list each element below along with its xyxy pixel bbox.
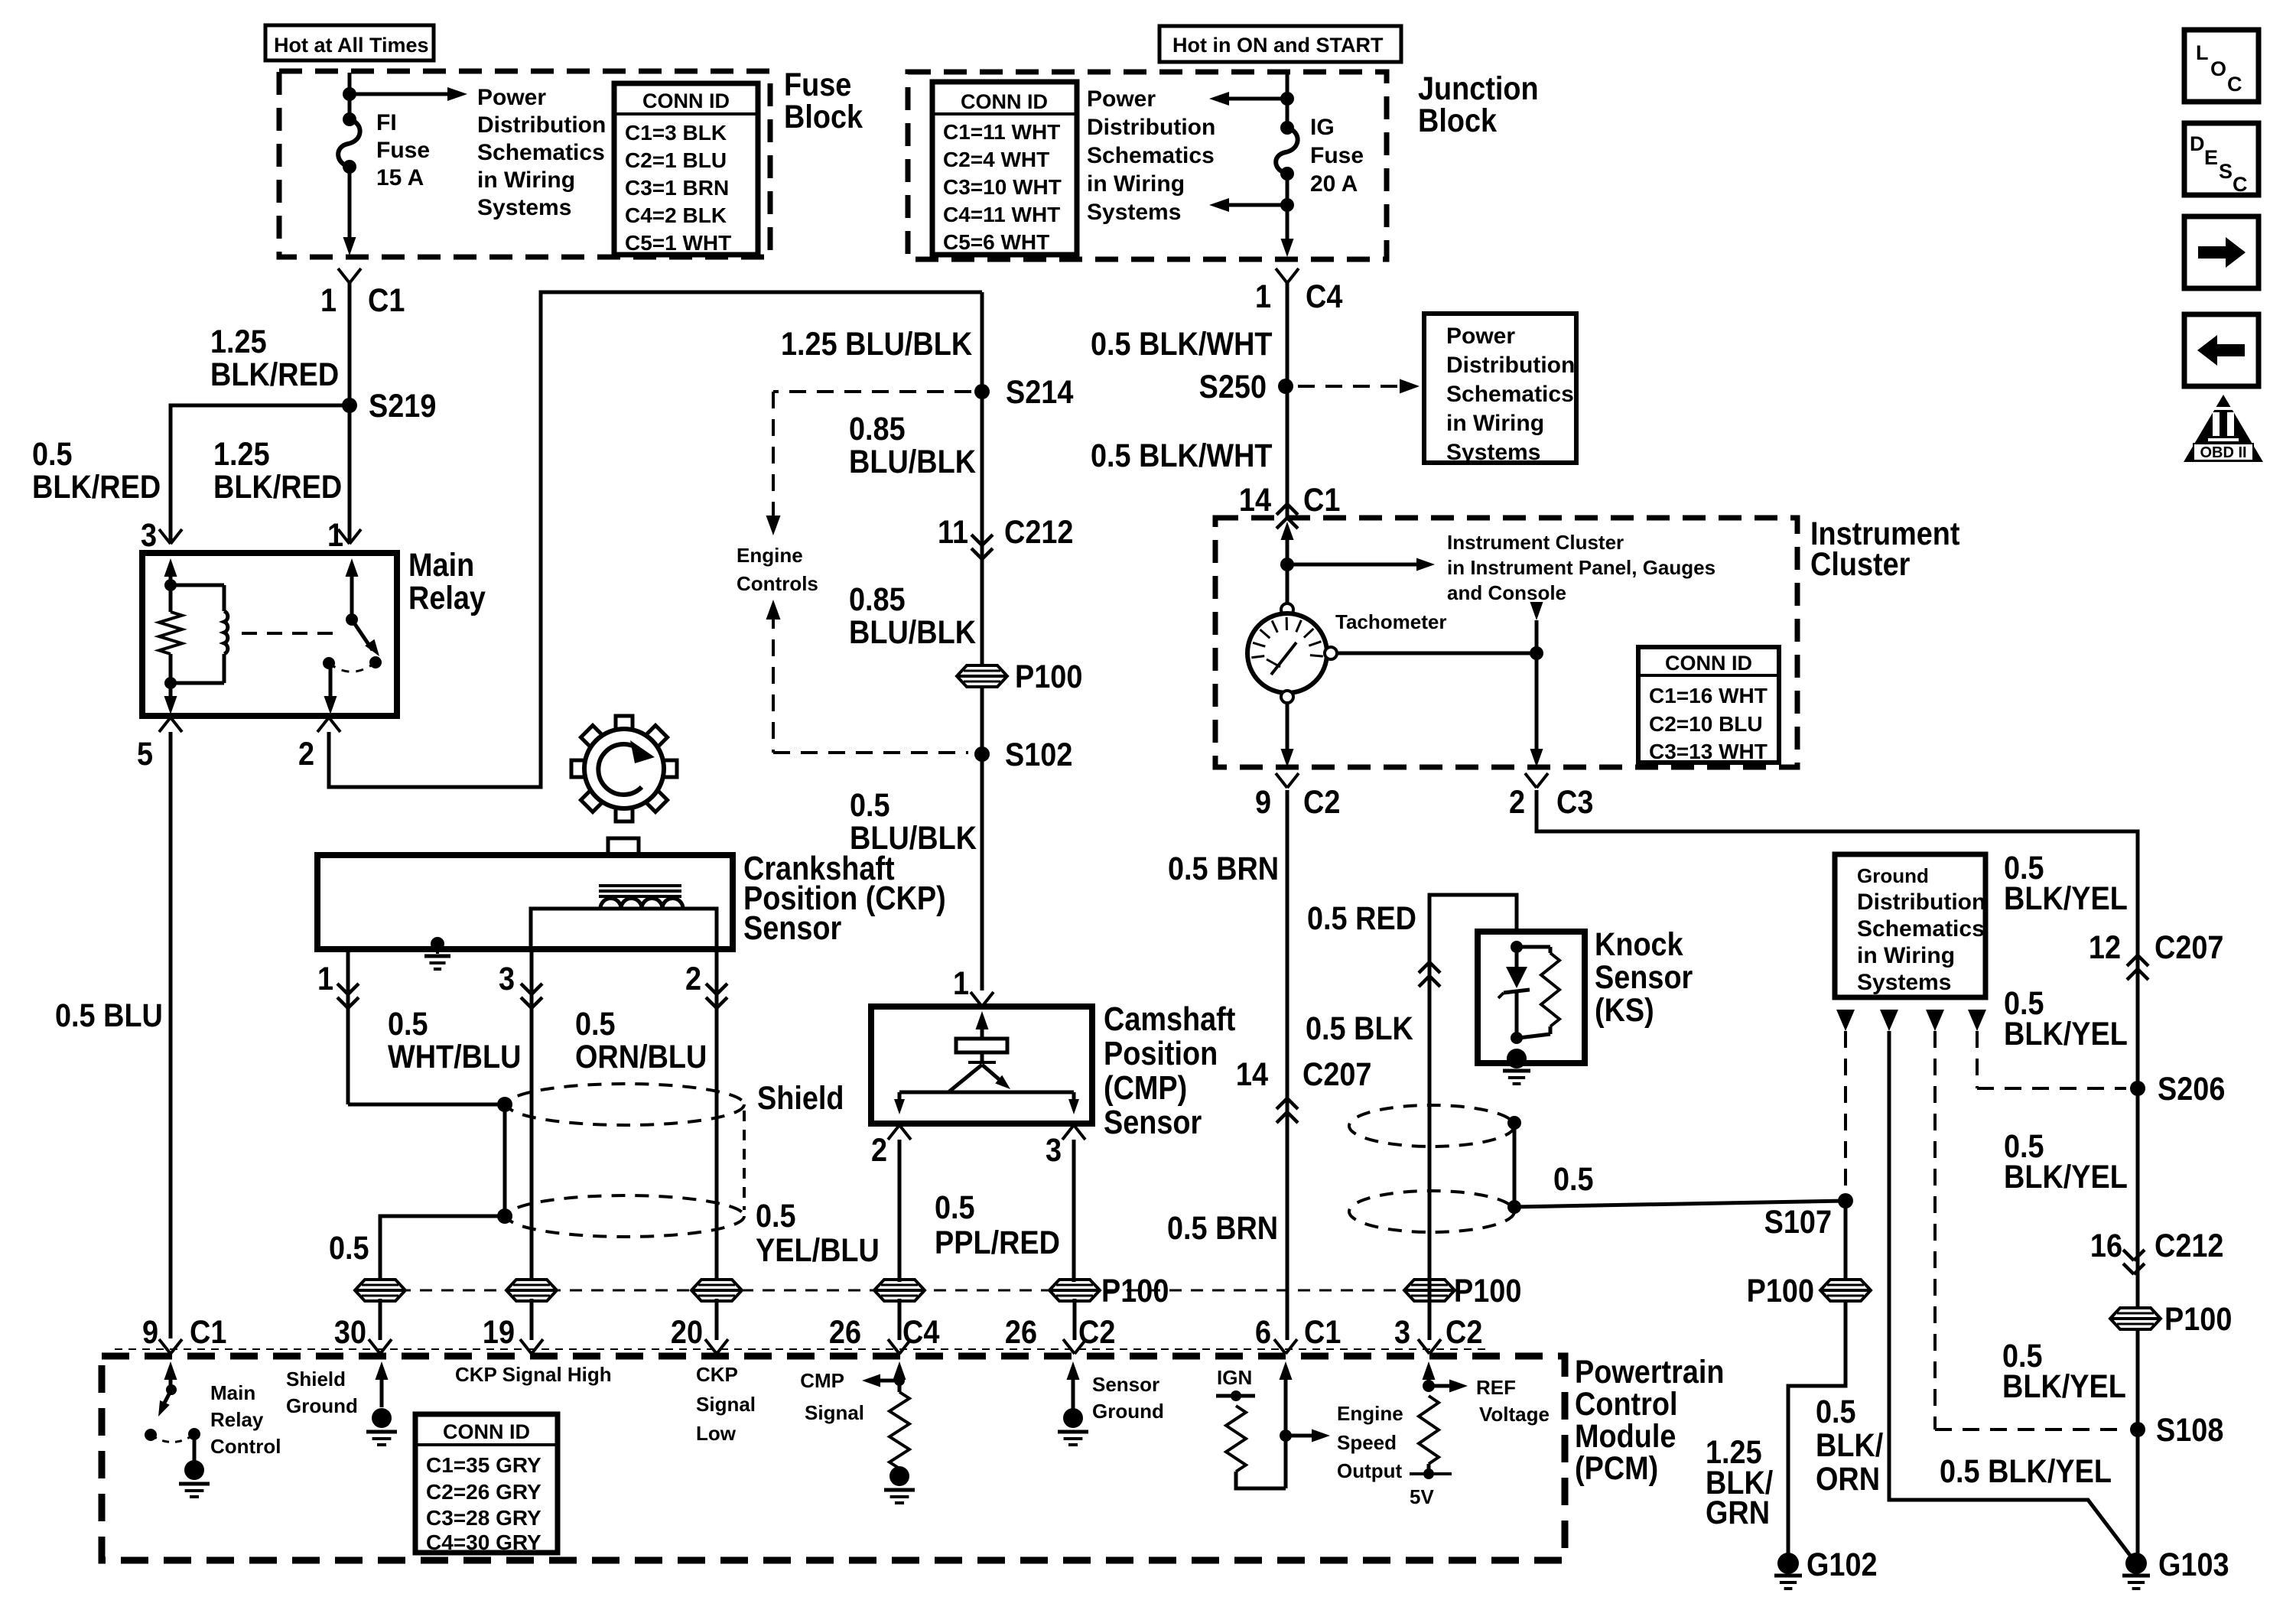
svg-text:C4: C4 xyxy=(1306,278,1343,315)
svg-text:C5=1 WHT: C5=1 WHT xyxy=(625,231,731,255)
svg-text:26: 26 xyxy=(829,1313,861,1351)
svg-text:Camshaft: Camshaft xyxy=(1104,1000,1236,1037)
svg-text:0.5 RED: 0.5 RED xyxy=(1307,899,1416,937)
REF voltage node xyxy=(1423,1380,1435,1392)
svg-text:CONN ID: CONN ID xyxy=(443,1420,530,1443)
svg-text:G103: G103 xyxy=(2158,1546,2229,1583)
node S102 xyxy=(974,746,990,762)
svg-text:Distribution: Distribution xyxy=(1446,353,1575,378)
svg-text:OBD II: OBD II xyxy=(2200,444,2246,461)
wire: resistor to engine speed output xyxy=(1236,1472,1286,1488)
svg-text:CKP: CKP xyxy=(696,1363,738,1386)
svg-text:Block: Block xyxy=(784,98,863,135)
svg-text:0.5 BLK/YEL: 0.5 BLK/YEL xyxy=(1940,1452,2112,1490)
connector chevron CKP pin3 xyxy=(521,984,532,994)
svg-text:BLK/YEL: BLK/YEL xyxy=(2004,1015,2128,1052)
svg-text:PPL/RED: PPL/RED xyxy=(935,1224,1060,1261)
wire: P100 to PCM pin20 xyxy=(715,1299,719,1340)
svg-text:26: 26 xyxy=(1005,1313,1037,1351)
node: shield drain bottom xyxy=(497,1208,512,1224)
CKP internal ground xyxy=(431,937,444,951)
svg-text:1: 1 xyxy=(317,960,333,997)
wire: tachometer to pin 9 C2 xyxy=(1286,703,1289,753)
svg-text:Knock: Knock xyxy=(1595,925,1683,963)
connector pin 1 C1 (fuse block output) xyxy=(338,268,350,283)
ground distribution drop arrow 4 xyxy=(1968,1010,1986,1031)
svg-text:CMP: CMP xyxy=(800,1369,844,1392)
svg-text:(CMP): (CMP) xyxy=(1104,1068,1187,1106)
PCM pin30 internal arrow xyxy=(380,1375,384,1407)
wire: P100 to PCM pin3 C2 xyxy=(1428,1299,1432,1340)
svg-text:Fuse: Fuse xyxy=(376,138,430,163)
svg-text:C1=11 WHT: C1=11 WHT xyxy=(943,120,1060,144)
relay pin1 internal arrow xyxy=(350,572,354,620)
svg-text:FI: FI xyxy=(376,110,397,135)
svg-text:14: 14 xyxy=(1236,1055,1269,1093)
CONN ID table (junction block) xyxy=(932,82,1077,255)
svg-text:in Wiring: in Wiring xyxy=(477,168,575,193)
CONN ID table (PCM) xyxy=(415,1414,558,1553)
svg-text:Schematics: Schematics xyxy=(1087,143,1215,168)
wire: relay coil to pin 5 xyxy=(169,683,173,701)
svg-text:C1: C1 xyxy=(368,281,405,319)
svg-text:G102: G102 xyxy=(1807,1546,1878,1583)
wire: S214 chain down to CMP sensor xyxy=(981,292,984,990)
svg-text:C3=13 WHT: C3=13 WHT xyxy=(1649,740,1768,763)
svg-text:BLK/RED: BLK/RED xyxy=(32,468,161,506)
REF voltage arrow xyxy=(1429,1384,1453,1388)
svg-text:S102: S102 xyxy=(1005,736,1072,773)
wire: drop 2 to G103 run xyxy=(1889,1031,2136,1563)
svg-text:11: 11 xyxy=(938,513,968,551)
svg-text:BLK/YEL: BLK/YEL xyxy=(2004,1158,2128,1195)
svg-text:P100: P100 xyxy=(1015,658,1082,695)
wire: S250 to instrument cluster xyxy=(1286,386,1289,518)
svg-text:C207: C207 xyxy=(2155,929,2223,966)
node S107 xyxy=(1838,1193,1853,1208)
svg-text:BLK/RED: BLK/RED xyxy=(213,468,342,506)
wire arrow: power distribution (lower) xyxy=(1224,203,1287,207)
node: junction to power distribution (fuse block) xyxy=(343,87,356,101)
ground symbol (CMP signal) xyxy=(889,1466,909,1486)
svg-text:15 A: 15 A xyxy=(376,165,424,190)
svg-text:Output: Output xyxy=(1337,1459,1403,1482)
relay resistor (coil suppression) xyxy=(169,585,173,612)
connector chevron CMP pin 3 xyxy=(1062,1125,1074,1140)
svg-text:in Instrument Panel, Gauges: in Instrument Panel, Gauges xyxy=(1447,556,1715,579)
icon: OBD II triangle xyxy=(2184,395,2263,462)
connector P100 (CMP signal wire) xyxy=(874,1280,925,1301)
icon: back arrow box xyxy=(2184,314,2259,386)
svg-text:3: 3 xyxy=(141,516,157,554)
relay switch moving contact xyxy=(369,656,382,668)
svg-text:Schematics: Schematics xyxy=(1446,382,1574,407)
label box: Hot at All Times xyxy=(265,25,434,60)
svg-text:C3=1 BRN: C3=1 BRN xyxy=(625,176,729,200)
svg-text:O: O xyxy=(2210,57,2226,80)
svg-text:Engine: Engine xyxy=(737,544,803,567)
svg-text:S214: S214 xyxy=(1006,373,1074,411)
svg-text:20: 20 xyxy=(671,1313,703,1351)
ground distribution schematics box xyxy=(1835,854,1985,997)
wire: P100 to PCM pin19 xyxy=(530,1299,534,1340)
wire: relay pin 2 loop to S214 wire xyxy=(329,292,982,787)
connector chevron pin 2 xyxy=(317,717,329,732)
wire: cluster pin9 to PCM pin6 (0.5 BRN) xyxy=(1286,790,1289,1340)
svg-text:ORN/BLU: ORN/BLU xyxy=(575,1038,707,1075)
svg-text:Signal: Signal xyxy=(805,1401,864,1424)
junction block dashed outline xyxy=(908,72,1387,259)
fuse FI 15A symbol xyxy=(343,112,356,126)
svg-text:S: S xyxy=(2219,160,2233,183)
svg-text:(KS): (KS) xyxy=(1595,991,1654,1029)
CKP reluctor gear xyxy=(616,716,633,731)
wire: shield to PCM pin 30 xyxy=(380,1216,505,1282)
node: knock shield top xyxy=(1507,1116,1521,1130)
svg-text:C4=11 WHT: C4=11 WHT xyxy=(943,203,1060,226)
svg-text:Distribution: Distribution xyxy=(1857,890,1985,915)
svg-text:Hot in ON and START: Hot in ON and START xyxy=(1172,34,1384,57)
svg-text:1.25: 1.25 xyxy=(210,323,267,360)
svg-text:Position: Position xyxy=(1104,1034,1218,1072)
svg-text:3: 3 xyxy=(1046,1131,1062,1169)
svg-text:Ground: Ground xyxy=(1092,1400,1164,1423)
svg-text:S250: S250 xyxy=(1199,368,1267,405)
wire: CMP pin3 to P100 xyxy=(1072,1140,1076,1282)
knock sensor piezo element xyxy=(1515,947,1519,967)
svg-text:5: 5 xyxy=(137,735,153,772)
relay coil top node xyxy=(164,579,177,591)
wire: P100 to G102 xyxy=(1788,1299,1846,1562)
svg-text:0.5 BLK: 0.5 BLK xyxy=(1306,1010,1413,1047)
svg-text:0.5 BRN: 0.5 BRN xyxy=(1168,850,1279,887)
svg-text:BLK/YEL: BLK/YEL xyxy=(2004,880,2128,917)
node: junction to power distribution (lower) xyxy=(1280,198,1294,212)
CMP internal feed arrow xyxy=(981,1025,984,1039)
svg-text:IG: IG xyxy=(1310,115,1335,140)
tachometer gauge xyxy=(1281,603,1293,616)
node S206 xyxy=(2130,1081,2145,1096)
node S219 xyxy=(342,398,357,413)
engine speed output arrow xyxy=(1286,1434,1315,1438)
svg-text:Sensor: Sensor xyxy=(743,909,841,946)
wire: C1 to S219 xyxy=(348,283,352,405)
PCM pin6 internal arrow xyxy=(1284,1375,1288,1488)
ground G103 xyxy=(2125,1553,2147,1574)
svg-text:0.85: 0.85 xyxy=(849,581,906,618)
ground symbol (knock sensor) xyxy=(1507,1049,1527,1068)
fuse IG 20A symbol xyxy=(1280,121,1294,135)
svg-text:P100: P100 xyxy=(1747,1272,1814,1309)
svg-text:Low: Low xyxy=(696,1422,737,1445)
P100 bulkhead dashed line xyxy=(356,1290,1457,1292)
svg-text:C5=6 WHT: C5=6 WHT xyxy=(943,230,1049,254)
svg-text:2: 2 xyxy=(871,1131,887,1169)
svg-text:Control: Control xyxy=(210,1435,281,1458)
svg-text:Power: Power xyxy=(477,85,546,110)
svg-text:GRN: GRN xyxy=(1706,1494,1770,1531)
svg-text:1.25 BLU/BLK: 1.25 BLU/BLK xyxy=(781,325,972,363)
IGN feed stub xyxy=(1216,1394,1255,1398)
svg-text:1: 1 xyxy=(1255,278,1271,315)
svg-text:1: 1 xyxy=(320,281,337,319)
CMP sensor box xyxy=(871,1007,1092,1124)
REF pull-up resistor xyxy=(1419,1396,1439,1464)
ground G102 xyxy=(1777,1553,1799,1574)
svg-text:0.5: 0.5 xyxy=(756,1197,796,1234)
svg-text:Sensor: Sensor xyxy=(1092,1373,1159,1396)
svg-text:(PCM): (PCM) xyxy=(1575,1449,1658,1487)
wire: CKP pin1 shield drain xyxy=(346,949,350,1104)
CKP sensor tab xyxy=(608,838,639,855)
svg-text:C1: C1 xyxy=(1304,1313,1341,1351)
S250 dashed branch arrow xyxy=(1298,385,1400,388)
svg-text:9: 9 xyxy=(142,1313,158,1351)
fuse block dashed outline xyxy=(279,71,770,257)
wire: ignition feed into IG fuse xyxy=(1286,73,1289,128)
svg-text:Relay: Relay xyxy=(408,579,486,616)
relay pin3 internal arrow xyxy=(169,572,173,585)
svg-text:YEL/BLU: YEL/BLU xyxy=(756,1231,880,1269)
svg-text:L: L xyxy=(2196,41,2209,64)
wire: tachometer to output junction xyxy=(1337,652,1537,655)
ground symbol (shield ground) xyxy=(372,1408,392,1428)
svg-text:Ground: Ground xyxy=(286,1394,358,1417)
wire: cluster pin2 C3 to ground chain xyxy=(1537,790,2138,1563)
cluster feed internal arrow xyxy=(1286,535,1289,564)
svg-text:REF: REF xyxy=(1476,1376,1516,1399)
svg-text:19: 19 xyxy=(483,1313,515,1351)
dashed wire: drop 1 to S107 xyxy=(1844,1031,1847,1192)
svg-text:CONN ID: CONN ID xyxy=(1665,652,1752,675)
svg-text:IGN: IGN xyxy=(1217,1366,1252,1389)
wire: relay contact to pin 2 xyxy=(329,666,333,701)
wire: IG fuse to junction block edge xyxy=(1286,174,1289,243)
svg-text:Power: Power xyxy=(1087,86,1156,112)
svg-text:12: 12 xyxy=(2089,929,2121,966)
svg-text:Fuse: Fuse xyxy=(1310,143,1364,168)
svg-text:C2=1 BLU: C2=1 BLU xyxy=(625,148,727,172)
svg-text:S107: S107 xyxy=(1764,1203,1832,1241)
connector face dashed line above PCM xyxy=(115,1348,1491,1350)
svg-text:BLK/: BLK/ xyxy=(1816,1426,1883,1464)
connector P100 (pin19 wire) xyxy=(506,1280,557,1301)
knock sensor box xyxy=(1478,932,1585,1063)
svg-text:0.5: 0.5 xyxy=(1816,1393,1856,1430)
PCM pin3C2 internal arrow xyxy=(1427,1375,1431,1387)
dashed wire: drop 3 to S108 xyxy=(1933,1031,1937,1429)
svg-text:C212: C212 xyxy=(1004,513,1073,551)
svg-text:Shield: Shield xyxy=(286,1368,346,1390)
connector chevron CKP pin2 xyxy=(706,984,717,994)
svg-text:Instrument Cluster: Instrument Cluster xyxy=(1447,531,1624,554)
CONN ID table (fuse block) xyxy=(614,83,758,255)
engine controls dashed branch (lower) xyxy=(766,600,781,620)
wire: CMP pin2 to P100 xyxy=(898,1140,902,1282)
wire: P100 to PCM pin26 C4 xyxy=(898,1299,902,1340)
icon: LOC box xyxy=(2184,30,2259,102)
instrument cluster dashed box xyxy=(1215,518,1797,767)
svg-text:Speed: Speed xyxy=(1337,1431,1397,1454)
icon: forward arrow box xyxy=(2184,216,2259,288)
svg-text:in Wiring: in Wiring xyxy=(1857,943,1955,968)
svg-text:E: E xyxy=(2204,146,2218,169)
svg-text:C2: C2 xyxy=(1446,1313,1482,1351)
wire: knock shield to S107 xyxy=(1514,1201,1846,1207)
connector P100 (BLK/YEL wire) xyxy=(2110,1308,2161,1329)
relay switch common node xyxy=(346,613,358,626)
svg-text:5V: 5V xyxy=(1410,1485,1434,1508)
cluster branch arrow xyxy=(1287,563,1420,567)
svg-text:Shield: Shield xyxy=(757,1079,844,1117)
svg-text:in Wiring: in Wiring xyxy=(1446,411,1544,436)
relay coil branch xyxy=(171,584,224,587)
node S108 xyxy=(2130,1422,2145,1437)
svg-text:C212: C212 xyxy=(2155,1227,2223,1264)
svg-text:2: 2 xyxy=(1509,783,1525,821)
node: knock shield bottom xyxy=(1507,1200,1521,1214)
svg-text:Voltage: Voltage xyxy=(1479,1403,1550,1426)
relay switch fixed contact xyxy=(323,657,335,669)
connector chevron pin 1 xyxy=(338,529,350,544)
svg-text:P100: P100 xyxy=(2164,1300,2232,1338)
wire: relay pin 5 to PCM pin 9 (0.5 BLU) xyxy=(169,732,173,1338)
svg-text:C: C xyxy=(2227,73,2242,96)
svg-text:C207: C207 xyxy=(1302,1055,1371,1093)
svg-text:Block: Block xyxy=(1418,102,1497,139)
wire: battery feed into FI fuse xyxy=(348,73,352,121)
wire: knock sensor feed loop xyxy=(1429,895,1517,1340)
connector P100 (pin30 wire) xyxy=(355,1280,405,1301)
svg-text:C2=26 GRY: C2=26 GRY xyxy=(426,1480,541,1504)
connector chevron CMP pin 2 xyxy=(888,1125,899,1140)
tachometer branch down arrow xyxy=(1530,602,1543,620)
svg-text:2: 2 xyxy=(298,735,314,772)
ground symbol (main relay control) xyxy=(184,1460,204,1480)
svg-text:Systems: Systems xyxy=(1857,970,1951,995)
svg-text:C1=3 BLK: C1=3 BLK xyxy=(625,121,727,145)
svg-text:Schematics: Schematics xyxy=(1857,916,1985,942)
connector P100 (S107 ground wire) xyxy=(1820,1280,1871,1301)
CONN ID table (instrument cluster) xyxy=(1638,647,1779,763)
svg-text:9: 9 xyxy=(1255,783,1271,821)
knock sensor bottom node xyxy=(1511,1032,1523,1044)
svg-text:0.5: 0.5 xyxy=(388,1005,428,1042)
main relay box xyxy=(142,553,397,716)
svg-text:C1=16 WHT: C1=16 WHT xyxy=(1649,684,1768,707)
PCM pin26C4 internal arrow xyxy=(898,1375,902,1392)
CMP signal arrow xyxy=(894,1375,905,1386)
svg-text:Distribution: Distribution xyxy=(1087,115,1215,140)
relay switch blade xyxy=(352,620,372,650)
svg-text:C2: C2 xyxy=(1078,1313,1115,1351)
svg-text:Cluster: Cluster xyxy=(1810,545,1911,583)
svg-text:Power: Power xyxy=(1446,324,1515,349)
CMP pickup symbol xyxy=(981,1052,984,1062)
svg-text:C3: C3 xyxy=(1556,783,1593,821)
svg-text:0.5: 0.5 xyxy=(32,435,73,473)
wire: CKP pin2 signal low xyxy=(715,949,719,1282)
wire: C4 to S250 xyxy=(1286,283,1289,386)
wire: cluster feed to tachometer xyxy=(1286,564,1289,604)
wire arrow: power distribution (upper) xyxy=(1224,97,1287,101)
wire: S219 down to relay pin 1 xyxy=(348,405,352,543)
svg-text:1: 1 xyxy=(953,964,969,1002)
svg-text:BLU/BLK: BLU/BLK xyxy=(849,443,976,480)
svg-text:Engine: Engine xyxy=(1337,1402,1403,1425)
svg-text:0.5 BLK/WHT: 0.5 BLK/WHT xyxy=(1091,325,1273,363)
svg-text:Signal: Signal xyxy=(696,1393,756,1416)
svg-text:CONN ID: CONN ID xyxy=(961,90,1048,113)
svg-text:C1: C1 xyxy=(190,1313,226,1351)
wire: P100 to PCM pin26 C2 xyxy=(1073,1299,1077,1340)
label box: Hot in ON and START xyxy=(1159,26,1401,62)
svg-text:Systems: Systems xyxy=(1446,440,1540,465)
svg-text:Schematics: Schematics xyxy=(477,140,605,165)
connector P100 (BLU/BLK wire) xyxy=(957,665,1007,687)
svg-text:0.5: 0.5 xyxy=(575,1005,616,1042)
ground distribution drop arrow 2 xyxy=(1880,1010,1898,1031)
PCM dashed box xyxy=(102,1356,1565,1560)
svg-text:6: 6 xyxy=(1255,1313,1271,1351)
main relay control switch xyxy=(166,1384,177,1395)
CMP signal pull resistor xyxy=(889,1392,909,1469)
CKP pickup core bars xyxy=(599,884,681,887)
wire: knock shield drain xyxy=(1513,1123,1517,1207)
node: tach output junction xyxy=(1530,646,1543,660)
connector chevron knock wire xyxy=(1419,962,1429,973)
CKP pickup coil xyxy=(600,899,683,909)
node: junction to power distribution (upper) xyxy=(1280,92,1294,106)
svg-text:Hot at All Times: Hot at All Times xyxy=(274,34,429,57)
connector chevron CMP pin 1 xyxy=(971,992,982,1007)
ground distribution drop arrow 3 xyxy=(1926,1010,1944,1031)
power distribution schematics box xyxy=(1424,314,1576,463)
svg-text:S206: S206 xyxy=(2158,1070,2225,1107)
svg-text:P100: P100 xyxy=(1101,1272,1169,1309)
svg-text:Relay: Relay xyxy=(210,1408,264,1431)
svg-text:C4=2 BLK: C4=2 BLK xyxy=(625,203,727,227)
svg-text:BLK/YEL: BLK/YEL xyxy=(2002,1368,2126,1405)
wire: FI fuse to fuse block edge xyxy=(348,167,352,242)
CKP coil frame xyxy=(531,909,717,949)
PCM pin9 internal arrow xyxy=(169,1375,173,1392)
svg-text:2: 2 xyxy=(685,960,701,997)
relay coil bottom node xyxy=(164,677,177,689)
connector chevron pin 3 xyxy=(159,529,171,544)
svg-text:CKP Signal High: CKP Signal High xyxy=(455,1363,612,1386)
svg-text:20 A: 20 A xyxy=(1310,171,1358,197)
PCM pin26C2 internal arrow xyxy=(1072,1375,1075,1409)
svg-text:Distribution: Distribution xyxy=(477,112,606,138)
svg-text:in Wiring: in Wiring xyxy=(1087,171,1185,197)
svg-text:C1: C1 xyxy=(1303,481,1340,519)
connector P100 (knock sensor wire) xyxy=(1404,1280,1455,1301)
relay switch dashed travel arc xyxy=(329,662,376,672)
svg-text:P100: P100 xyxy=(1454,1272,1521,1309)
engine controls dashed branch (upper) xyxy=(773,390,971,393)
ground distribution drop arrow 1 xyxy=(1836,1010,1855,1031)
wire: tach output branch xyxy=(1535,620,1539,753)
svg-text:0.5: 0.5 xyxy=(1553,1160,1594,1198)
svg-text:Systems: Systems xyxy=(477,195,571,220)
svg-text:16: 16 xyxy=(2090,1227,2122,1264)
node S214 xyxy=(974,384,990,399)
svg-text:0.5 BLK/WHT: 0.5 BLK/WHT xyxy=(1091,437,1273,474)
svg-text:Sensor: Sensor xyxy=(1104,1103,1202,1140)
svg-text:S108: S108 xyxy=(2156,1411,2223,1449)
connector P100 (sensor ground wire) xyxy=(1049,1280,1100,1301)
